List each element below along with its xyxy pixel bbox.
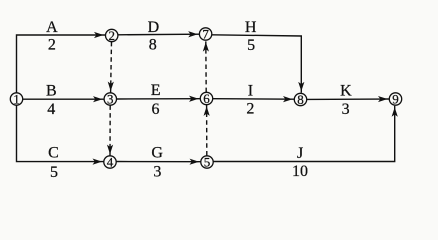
svg-text:8: 8 [297,92,304,107]
svg-text:5: 5 [247,37,255,54]
svg-text:6: 6 [152,101,160,118]
svg-text:D: D [148,19,160,36]
svg-text:7: 7 [202,26,209,41]
svg-text:2: 2 [246,100,254,117]
svg-text:9: 9 [392,91,399,106]
svg-text:E: E [151,82,161,99]
svg-text:3: 3 [342,101,350,118]
svg-text:C: C [48,145,59,162]
svg-text:G: G [151,145,163,162]
svg-text:2: 2 [108,28,115,43]
svg-text:I: I [248,83,253,100]
svg-text:10: 10 [292,163,308,180]
svg-text:4: 4 [107,154,114,169]
svg-text:5: 5 [204,154,211,169]
svg-text:1: 1 [13,91,20,106]
svg-text:6: 6 [203,91,210,106]
svg-text:A: A [46,19,58,36]
svg-text:5: 5 [50,164,58,181]
svg-text:3: 3 [153,164,161,181]
svg-text:J: J [297,145,303,162]
svg-text:B: B [46,82,57,99]
svg-text:4: 4 [47,101,55,118]
svg-text:8: 8 [149,36,157,53]
svg-text:H: H [245,19,257,36]
svg-text:K: K [340,83,352,100]
svg-text:2: 2 [48,37,56,54]
svg-text:3: 3 [107,91,114,106]
